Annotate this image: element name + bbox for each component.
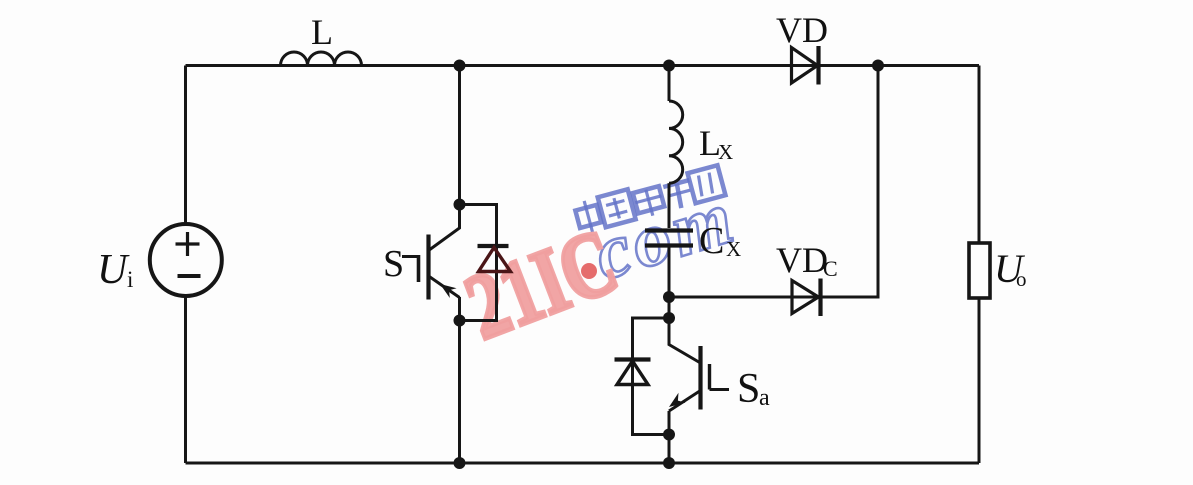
svg-text:X: X <box>726 237 741 261</box>
svg-text:C: C <box>823 256 838 281</box>
svg-text:VD: VD <box>776 240 828 280</box>
svg-text:a: a <box>759 385 770 411</box>
svg-text:o: o <box>1016 267 1027 291</box>
svg-text:i: i <box>127 267 133 292</box>
svg-text:S: S <box>737 366 760 412</box>
svg-text:S: S <box>383 243 404 285</box>
svg-text:U: U <box>97 247 130 293</box>
svg-text:X: X <box>718 140 733 164</box>
svg-text:VD: VD <box>776 10 828 50</box>
svg-text:C: C <box>699 220 724 262</box>
svg-text:L: L <box>311 12 333 52</box>
